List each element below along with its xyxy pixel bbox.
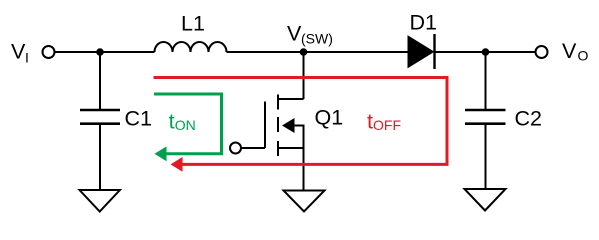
gate wire xyxy=(241,147,265,149)
label tOFF xyxy=(367,110,401,134)
wire junction down to C2 xyxy=(485,52,487,110)
diode D1 xyxy=(408,36,434,68)
svg-text:Q1: Q1 xyxy=(315,106,344,130)
svg-text:L1: L1 xyxy=(181,12,205,36)
gate bar xyxy=(264,102,266,149)
loop tON green path xyxy=(154,94,222,154)
gate terminal circle xyxy=(230,143,241,154)
svg-text:OFF: OFF xyxy=(373,117,401,133)
terminal VI circle xyxy=(43,46,55,58)
body connection xyxy=(294,126,304,149)
wire diode to output xyxy=(436,51,536,53)
node VSW junction dot xyxy=(300,48,308,56)
svg-text:D1: D1 xyxy=(410,11,437,35)
wire source to ground xyxy=(303,148,305,191)
channel bar source xyxy=(277,141,279,156)
loop tOFF red path xyxy=(154,78,448,165)
wire inductor to diode xyxy=(227,51,409,53)
source connection xyxy=(278,147,304,149)
diode D1 cathode bar xyxy=(433,34,435,69)
svg-text:V: V xyxy=(562,39,577,63)
wire C2 to ground xyxy=(485,124,487,189)
label tON xyxy=(169,110,196,134)
channel bar drain xyxy=(277,95,279,110)
svg-text:I: I xyxy=(25,50,29,66)
svg-text:V: V xyxy=(11,40,26,64)
svg-text:C1: C1 xyxy=(125,107,152,131)
wire VSW to drain xyxy=(303,52,305,99)
svg-text:t: t xyxy=(169,110,175,134)
wire C1 to ground xyxy=(99,124,101,190)
transistor Q1 xyxy=(230,95,304,157)
ground right xyxy=(465,189,506,211)
node output junction dot xyxy=(482,48,490,56)
body arrow Q1 xyxy=(282,118,295,133)
svg-text:O: O xyxy=(578,48,589,64)
svg-text:(SW): (SW) xyxy=(301,31,333,47)
ground middle xyxy=(284,191,325,212)
capacitor C2 xyxy=(465,110,506,124)
svg-text:V: V xyxy=(287,22,302,46)
wire junction down to C1 xyxy=(99,52,101,110)
arrowhead green tON xyxy=(155,146,167,161)
drain connection xyxy=(278,98,304,100)
ground left xyxy=(80,190,120,212)
inductor L1 xyxy=(155,42,227,52)
wire input to inductor xyxy=(55,51,155,53)
node input junction dot xyxy=(96,48,104,56)
label VI xyxy=(11,40,29,66)
svg-text:ON: ON xyxy=(175,117,196,133)
terminal VO circle xyxy=(536,46,548,58)
arrowhead red tOFF xyxy=(171,157,183,172)
label VSW xyxy=(287,22,333,47)
label VO xyxy=(562,39,589,64)
capacitor C1 xyxy=(80,110,120,124)
svg-text:C2: C2 xyxy=(515,107,542,131)
channel bar body xyxy=(277,117,279,132)
